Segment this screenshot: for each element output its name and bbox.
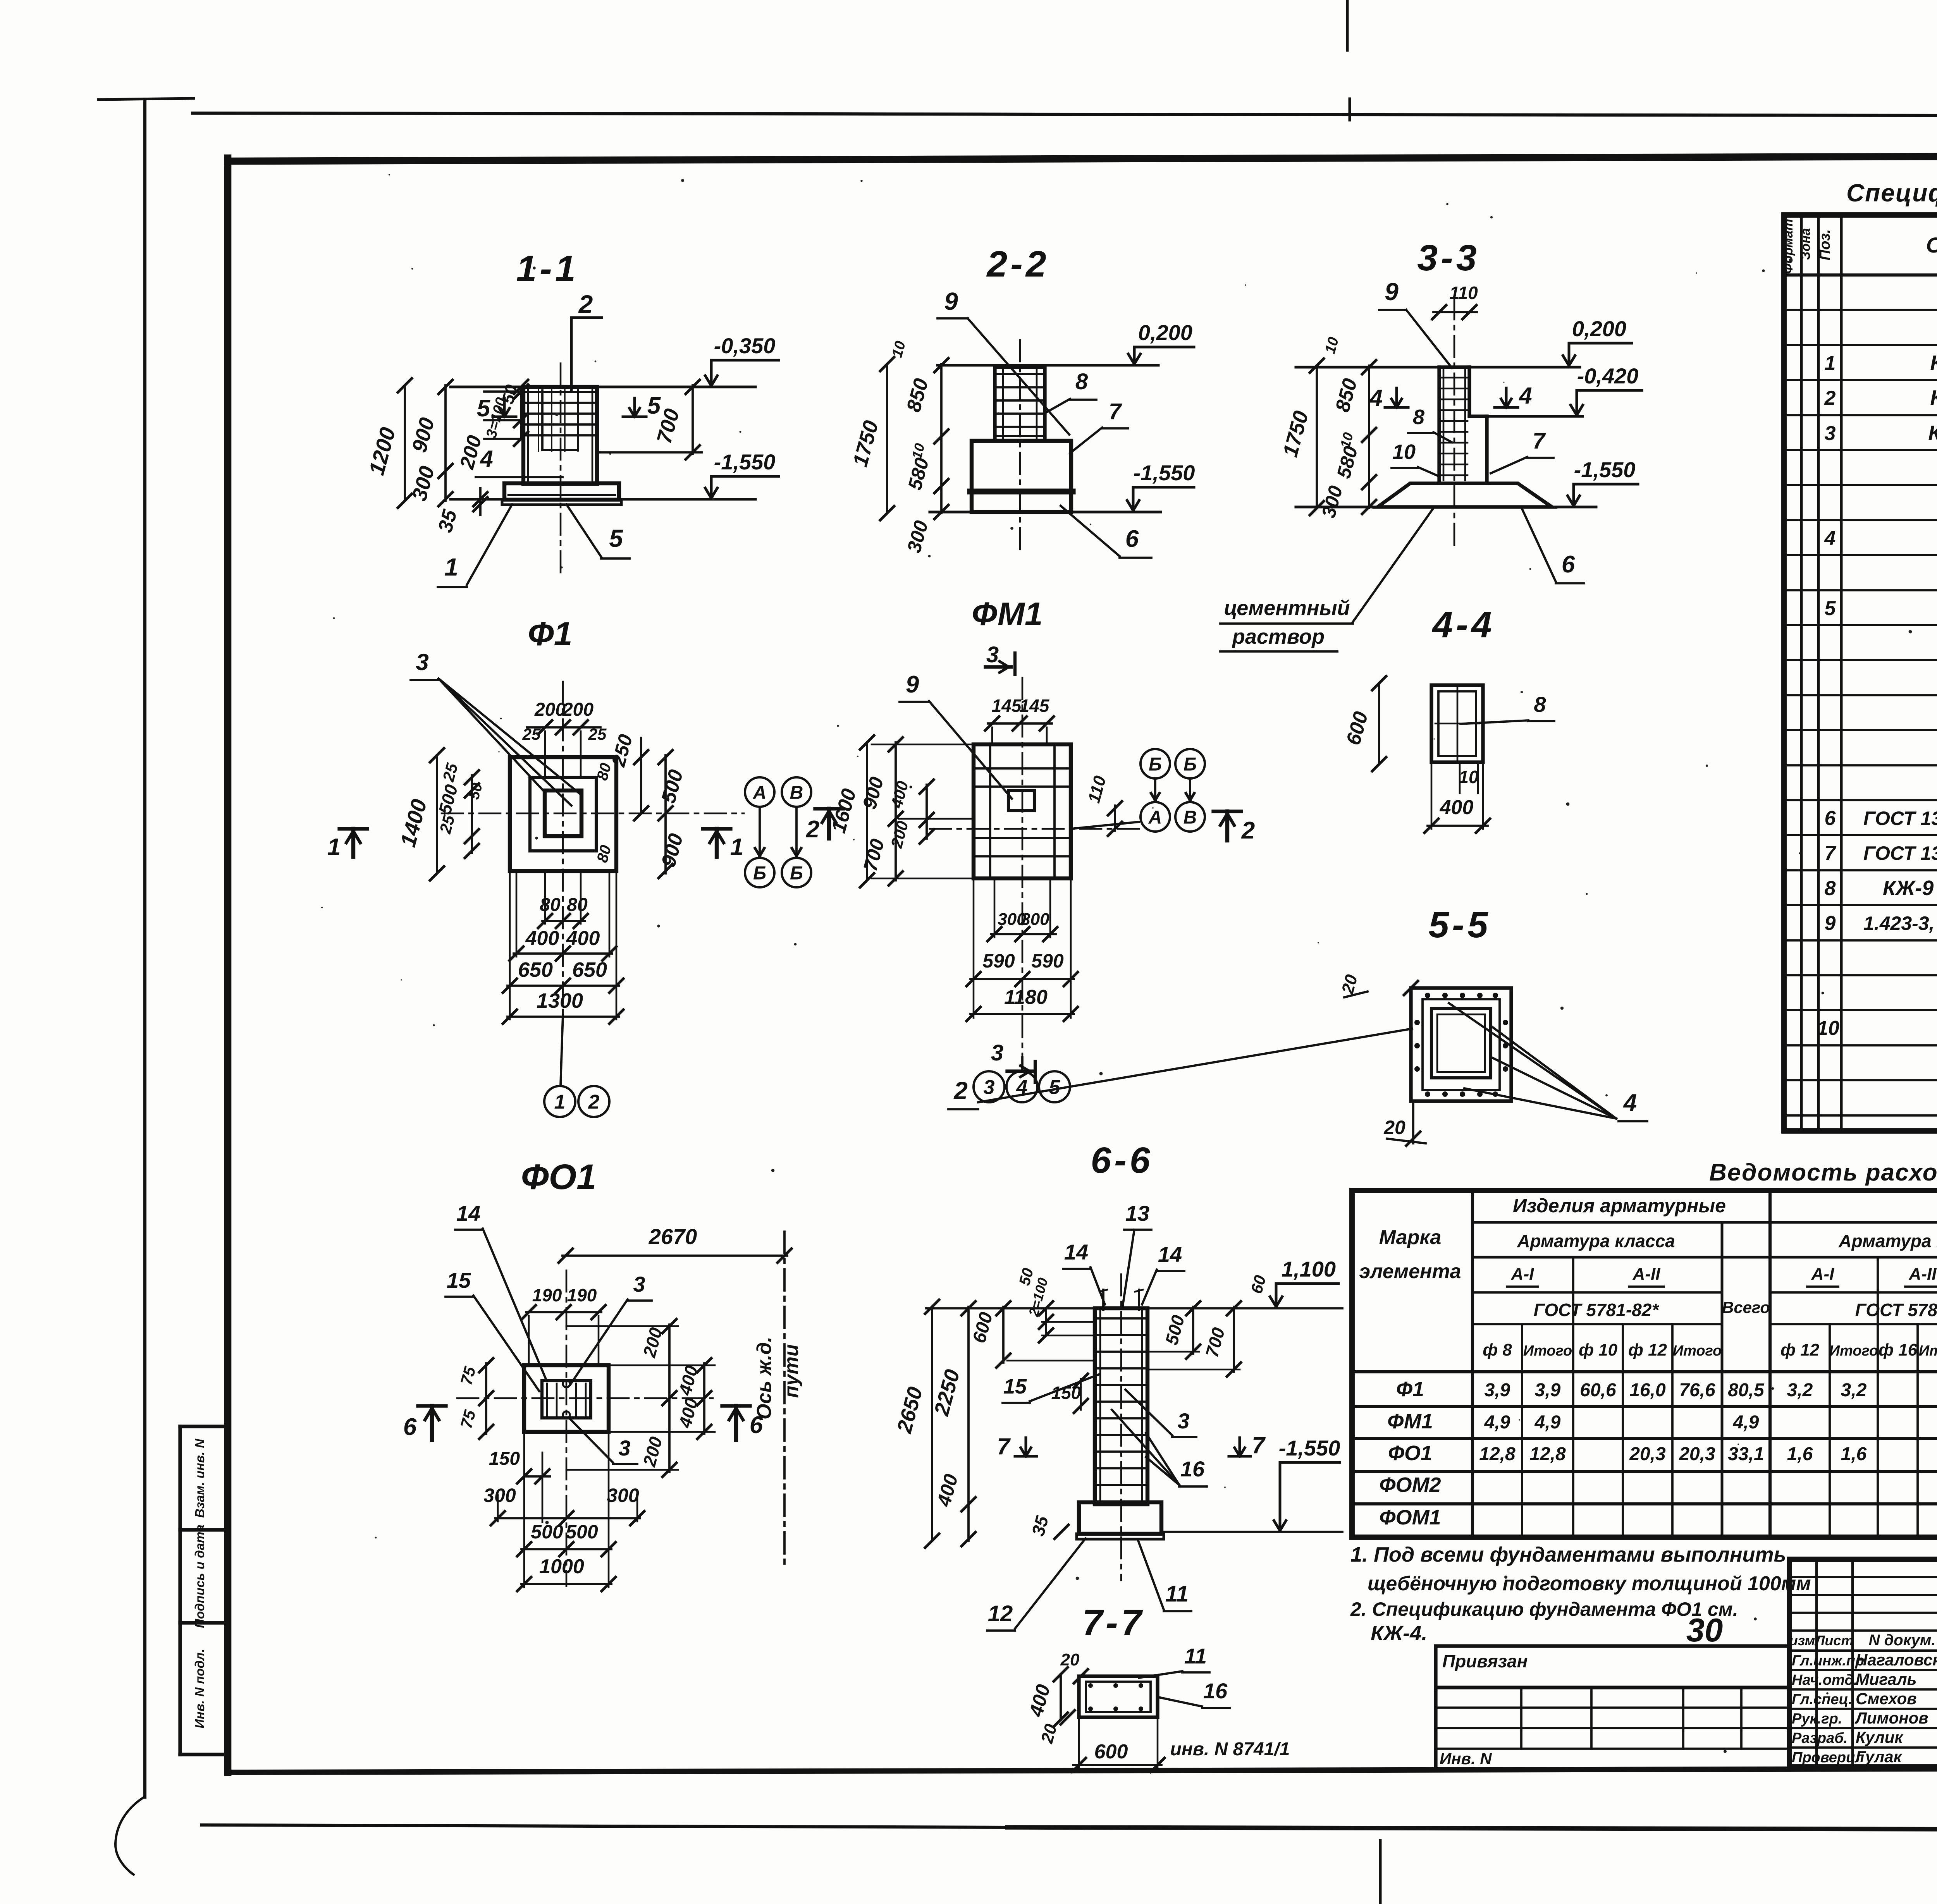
title block signature rows: [1789, 1669, 1937, 1671]
svg-text:Поз.: Поз.: [1817, 229, 1833, 261]
svg-text:Взам. инв. N: Взам. инв. N: [193, 1438, 207, 1518]
steel table vertical lines: [1471, 1191, 1474, 1537]
svg-text:N докум.: N докум.: [1869, 1632, 1936, 1649]
svg-text:3: 3: [1177, 1409, 1189, 1433]
top fold mark: [1346, 0, 1349, 50]
svg-text:Б: Б: [1184, 754, 1197, 775]
svg-text:ф 16: ф 16: [1879, 1340, 1918, 1359]
svg-text:Обозначение: Обозначение: [1926, 233, 1937, 257]
section 3-3 dim 1750: [1316, 366, 1318, 508]
plan F1 grid circle B: [782, 777, 811, 807]
plan FM1 left extension lines: [872, 744, 974, 746]
svg-text:10: 10: [1459, 767, 1479, 787]
svg-text:А-I: А-I: [1811, 1265, 1834, 1284]
section 3-3 step level line: [1471, 415, 1583, 418]
svg-text:ГОСТ 5781-82*: ГОСТ 5781-82*: [1534, 1300, 1660, 1320]
section 6-6 centre axis: [1120, 1274, 1122, 1580]
svg-text:элемента: элемента: [1359, 1260, 1461, 1283]
steel table horizontal lines: [1473, 1221, 1937, 1224]
section 2-2 block-plate joint: [970, 488, 1073, 494]
plan F1 right dim 500 900: [664, 755, 667, 873]
svg-text:1,6: 1,6: [1841, 1444, 1867, 1464]
drawing frame left: [224, 158, 232, 1772]
plan FM1 grid circle B1: [1141, 749, 1170, 778]
svg-text:Итого: Итого: [1523, 1343, 1572, 1359]
section 7-7 rebar dots: [1088, 1683, 1093, 1688]
section 5-5 rebar dots: [1425, 993, 1430, 998]
svg-text:9: 9: [944, 287, 958, 315]
svg-text:0,200: 0,200: [1138, 320, 1192, 345]
svg-text:9: 9: [1825, 912, 1836, 935]
svg-text:3,2: 3,2: [1787, 1380, 1813, 1401]
spec table outer border: [1784, 215, 1937, 1131]
svg-text:0,200: 0,200: [1572, 316, 1626, 341]
svg-text:А: А: [753, 782, 767, 803]
svg-text:2: 2: [588, 1091, 600, 1114]
svg-text:150: 150: [489, 1449, 520, 1469]
svg-text:Б: Б: [753, 863, 766, 883]
section 1-1 centre axis: [560, 363, 562, 577]
svg-text:Зона: Зона: [1798, 228, 1813, 260]
svg-text:8: 8: [1825, 877, 1836, 900]
svg-text:600: 600: [1094, 1741, 1128, 1763]
section 1-1 column outline: [523, 387, 597, 484]
plan F1 grid connectors: [759, 808, 761, 856]
plan F1 column square: [530, 777, 596, 851]
svg-text:Рук.гр.: Рук.гр.: [1792, 1711, 1842, 1727]
section 2-2 FL plate: [972, 491, 1071, 512]
svg-text:ф 12: ф 12: [1780, 1340, 1820, 1359]
svg-text:Инв. N подл.: Инв. N подл.: [193, 1649, 207, 1728]
svg-text:3: 3: [991, 1040, 1003, 1065]
svg-text:3: 3: [633, 1272, 645, 1296]
svg-text:Нач.отд.: Нач.отд.: [1792, 1672, 1858, 1688]
svg-text:15: 15: [447, 1268, 471, 1292]
svg-text:1,100: 1,100: [1282, 1257, 1336, 1281]
svg-text:6-6: 6-6: [1091, 1140, 1153, 1181]
svg-text:КЖ-4.: КЖ-4.: [1371, 1622, 1427, 1645]
section 6-6 bottom level line: [1164, 1531, 1342, 1533]
section 2-2 dim 1750: [886, 364, 888, 513]
plan F1 top extension lines: [544, 731, 546, 777]
plan FO1 embed plate: [542, 1381, 591, 1418]
plan FM1 grid circle B2: [1175, 749, 1205, 778]
section 6-6 column mesh rungs: [1097, 1317, 1145, 1320]
svg-text:2: 2: [953, 1077, 968, 1105]
svg-text:6: 6: [1125, 526, 1139, 552]
svg-text:20: 20: [1060, 1650, 1080, 1669]
svg-text:590: 590: [982, 950, 1015, 972]
svg-text:5-5: 5-5: [1428, 904, 1491, 945]
svg-text:14: 14: [1064, 1240, 1088, 1264]
svg-text:Проверил: Проверил: [1792, 1749, 1864, 1766]
plan FM1 axis link to circles: [1071, 822, 1139, 829]
title block revision grid rows: [1789, 1576, 1937, 1578]
svg-text:500: 500: [566, 1521, 598, 1543]
svg-text:300: 300: [607, 1485, 639, 1506]
plan FM1 position circle 4: [1006, 1071, 1037, 1102]
svg-text:3,9: 3,9: [1535, 1380, 1561, 1401]
svg-text:6: 6: [750, 1412, 763, 1438]
plan F1 right dim 250: [640, 738, 642, 813]
section 1-1 column mesh rungs: [526, 391, 595, 393]
attr table privyazan box: [1436, 1646, 1789, 1687]
svg-text:190: 190: [567, 1285, 597, 1305]
svg-text:10: 10: [1392, 440, 1416, 464]
plan FO1 embed bars: [546, 1383, 548, 1416]
section 3-3 column outline: [1437, 367, 1441, 483]
section 7-7 outline: [1079, 1676, 1158, 1717]
svg-text:ф 8: ф 8: [1483, 1340, 1512, 1359]
svg-text:В: В: [1184, 807, 1197, 828]
svg-text:-0,350: -0,350: [714, 333, 776, 358]
plan FO1 bottom extension lines: [523, 1432, 525, 1587]
svg-text:ФО1: ФО1: [521, 1157, 597, 1197]
svg-text:Привязан: Привязан: [1442, 1651, 1528, 1671]
svg-text:-1,550: -1,550: [1574, 457, 1636, 482]
svg-text:20,3: 20,3: [1629, 1444, 1666, 1464]
plan F1 left dim 1400: [436, 755, 438, 873]
svg-text:200: 200: [562, 699, 593, 720]
plan FM1 left dim 400-200: [925, 785, 928, 839]
svg-text:Ось ж.д.: Ось ж.д.: [753, 1337, 776, 1419]
plan F1 axis circles leader: [561, 1015, 563, 1085]
svg-text:1: 1: [444, 553, 458, 581]
plan F1 bottom extension lines: [509, 871, 511, 1019]
section 2-2 top level line: [938, 364, 1158, 367]
title block revision grid verticals: [1815, 1559, 1818, 1767]
section 1-1 dim line 1200: [404, 385, 406, 501]
svg-text:190: 190: [532, 1285, 562, 1305]
svg-text:В: В: [790, 782, 803, 803]
plan FO1 right dim 200 400 400 200: [668, 1325, 671, 1472]
svg-text:14: 14: [456, 1201, 480, 1225]
svg-text:590: 590: [1031, 950, 1064, 972]
svg-text:2: 2: [1824, 387, 1836, 409]
top-left registration tick: [98, 98, 194, 100]
plan F1 grid circle B1: [745, 858, 774, 887]
svg-text:7: 7: [1533, 428, 1546, 454]
sheet outer border left: [143, 99, 146, 1797]
svg-text:1: 1: [554, 1091, 566, 1114]
plan FM1 grid circle V: [1175, 802, 1205, 832]
svg-text:Подпись и дата: Подпись и дата: [193, 1524, 207, 1628]
section 2-2 centre axis: [1019, 340, 1021, 550]
svg-text:4: 4: [1623, 1089, 1637, 1116]
spec table row lines: [1784, 309, 1937, 311]
scan speckles: [998, 412, 1000, 415]
section 5-5 inner mesh square: [1431, 1009, 1491, 1078]
section 6-6 column outline: [1095, 1308, 1147, 1504]
spec table verticals: [1800, 215, 1803, 1131]
svg-text:раствор: раствор: [1232, 625, 1325, 648]
svg-text:пути: пути: [780, 1344, 803, 1398]
svg-text:ГОСТ 13579-78*: ГОСТ 13579-78*: [1863, 842, 1937, 864]
svg-text:8: 8: [1075, 369, 1088, 394]
svg-text:76,6: 76,6: [1679, 1380, 1715, 1401]
svg-text:3,9: 3,9: [1485, 1380, 1510, 1401]
svg-text:2: 2: [806, 816, 819, 843]
section 2-2 dim chain 850-580-300: [940, 364, 943, 513]
svg-text:2670: 2670: [649, 1224, 697, 1249]
svg-text:400: 400: [1440, 796, 1474, 819]
section 3-3 bottom level lines: [1296, 506, 1378, 509]
svg-text:650: 650: [572, 958, 607, 981]
section 6-6 column inner bars: [1099, 1310, 1101, 1503]
svg-text:145: 145: [1020, 696, 1050, 716]
section 4-4 dim 600: [1378, 683, 1380, 764]
plan FM1 embed plate: [1008, 790, 1034, 811]
plan F1 position circle 1: [544, 1086, 575, 1117]
svg-text:3: 3: [416, 649, 428, 675]
svg-text:ф 10: ф 10: [1579, 1340, 1618, 1359]
svg-text:1: 1: [730, 834, 743, 861]
plan FO1 left dim 75 75: [485, 1363, 487, 1434]
svg-text:3: 3: [986, 642, 999, 667]
section 5-5 middle outline: [1423, 999, 1500, 1090]
svg-text:Нагаловский: Нагаловский: [1856, 1651, 1937, 1669]
svg-text:14: 14: [1158, 1242, 1182, 1266]
svg-text:1.423-3, вып. 2: 1.423-3, вып. 2: [1863, 912, 1937, 934]
svg-text:8: 8: [1413, 406, 1424, 429]
svg-text:1-1: 1-1: [516, 248, 578, 289]
plan FM1 position circle 5: [1039, 1071, 1070, 1102]
svg-text:6: 6: [1562, 551, 1575, 578]
section 4-4 outline: [1431, 685, 1483, 762]
svg-text:А-II: А-II: [1909, 1265, 1937, 1284]
svg-text:1300: 1300: [537, 989, 583, 1012]
svg-text:Итого: Итого: [1919, 1343, 1937, 1359]
svg-text:инв. N 8741/1: инв. N 8741/1: [1170, 1739, 1290, 1760]
svg-text:Гулак: Гулак: [1856, 1748, 1903, 1766]
svg-text:щебёночную подготовку толщино: щебёночную подготовку толщиной 100мм: [1368, 1572, 1811, 1595]
svg-text:ФОМ2: ФОМ2: [1379, 1473, 1441, 1497]
section 6-6 top rebar hooks: [1102, 1290, 1104, 1310]
section 1-1 stirrup U: [541, 390, 544, 450]
svg-text:КЖ-10: КЖ-10: [1928, 421, 1937, 445]
svg-text:10: 10: [1817, 1017, 1839, 1040]
svg-text:33,1: 33,1: [1728, 1444, 1764, 1464]
svg-text:20: 20: [1383, 1117, 1405, 1138]
svg-text:7: 7: [1109, 399, 1122, 424]
steel table outer border: [1352, 1191, 1937, 1537]
svg-text:КЖ-9: КЖ-9: [1883, 876, 1934, 900]
svg-text:30: 30: [1686, 1612, 1723, 1649]
svg-text:7: 7: [1825, 842, 1837, 864]
section 3-3 column mesh: [1443, 368, 1445, 480]
section 1-1 dim line 900-300: [444, 385, 447, 501]
section 3-3 dim chain 850-580-300: [1368, 366, 1370, 508]
svg-text:3: 3: [984, 1076, 995, 1099]
plan FO1 outline: [524, 1365, 609, 1432]
section 2-2 bottom level line: [930, 511, 972, 514]
svg-text:1: 1: [327, 834, 341, 861]
svg-text:5: 5: [1825, 597, 1836, 620]
section 6-6 right dim 700: [1233, 1307, 1235, 1372]
plan FM1 slab band lines: [974, 767, 1071, 770]
svg-text:Всего: Всего: [1722, 1298, 1770, 1316]
plan FM1 grid connectors: [1154, 779, 1156, 800]
svg-text:А-II: А-II: [1633, 1265, 1661, 1284]
svg-text:1,6: 1,6: [1787, 1444, 1813, 1464]
svg-text:4: 4: [1824, 527, 1836, 550]
sheet outer border bottom: [201, 1825, 1007, 1827]
svg-text:3: 3: [1825, 422, 1836, 445]
spec table header row line: [1784, 273, 1937, 277]
svg-text:4: 4: [1369, 385, 1382, 411]
bottom fold mark: [1379, 1840, 1382, 1904]
section 6-6 dim 2250-400: [967, 1307, 970, 1541]
title block outer border: [1789, 1559, 1937, 1767]
svg-text:Ф1: Ф1: [1396, 1378, 1424, 1401]
svg-text:300: 300: [483, 1485, 516, 1506]
section 7-7 inner mesh: [1086, 1682, 1151, 1712]
svg-text:Изделия арматурные: Изделия арматурные: [1513, 1195, 1726, 1217]
plan F1 grid circle A: [745, 777, 774, 807]
svg-text:КЖ-9: КЖ-9: [1930, 386, 1937, 409]
section 3-3 centre axis: [1454, 298, 1455, 550]
svg-text:Гл.инж.пр: Гл.инж.пр: [1792, 1653, 1864, 1669]
svg-text:Мигаль: Мигаль: [1856, 1670, 1916, 1688]
drawing frame bottom: [228, 1768, 1937, 1772]
svg-text:7: 7: [997, 1433, 1011, 1459]
svg-text:ФО1: ФО1: [1388, 1442, 1432, 1465]
svg-text:-0,420: -0,420: [1577, 364, 1639, 388]
plan FM1 slab outline: [974, 744, 1071, 878]
svg-text:Инв. N: Инв. N: [1440, 1749, 1492, 1768]
plan FO1 anchor circles: [563, 1380, 570, 1387]
svg-text:7-7: 7-7: [1082, 1602, 1144, 1643]
svg-text:Спецификация фундаментов Ф: Спецификация фундаментов Ф1, Ф2: [1846, 179, 1937, 207]
svg-text:145: 145: [992, 696, 1022, 716]
left sidebar cells: [178, 1426, 182, 1754]
plan F1 left small dims 25 500 25: [471, 775, 473, 853]
svg-text:12,8: 12,8: [1479, 1444, 1516, 1464]
svg-text:А-I: А-I: [1511, 1265, 1534, 1284]
svg-text:4,9: 4,9: [1534, 1412, 1561, 1433]
plan FO1 railway axis: [783, 1232, 786, 1565]
svg-text:25: 25: [522, 725, 541, 743]
sheet outer border top: [193, 113, 1937, 116]
title block header izm row: [1789, 1650, 1937, 1652]
drawing frame top: [228, 155, 1937, 161]
svg-text:4,9: 4,9: [1484, 1412, 1510, 1433]
svg-text:Арматура класса: Арматура класса: [1838, 1231, 1937, 1251]
section 6-6 base plate: [1077, 1534, 1164, 1539]
svg-text:80: 80: [567, 895, 588, 915]
section 7-7 dim 400: [1060, 1674, 1062, 1720]
svg-text:Итого: Итого: [1673, 1343, 1722, 1359]
svg-text:5: 5: [1049, 1076, 1061, 1099]
svg-text:80,5: 80,5: [1728, 1380, 1765, 1401]
section 3-3 top level line: [1296, 366, 1580, 369]
svg-text:ф 12: ф 12: [1628, 1340, 1667, 1359]
section 1-1 footing: [504, 483, 619, 500]
plan FM1 bottom extension lines: [973, 878, 975, 1018]
section 2-2 column mesh rungs: [997, 373, 1042, 375]
svg-text:цементный: цементный: [1224, 596, 1350, 620]
svg-text:16,0: 16,0: [1629, 1380, 1666, 1401]
svg-text:2-2: 2-2: [986, 244, 1049, 285]
svg-text:9: 9: [906, 671, 919, 698]
plan FM1 left dim 1600: [866, 742, 868, 880]
svg-text:16: 16: [1203, 1679, 1228, 1703]
section 1-1 footing mesh: [508, 494, 615, 496]
svg-text:ГОСТ 13580-80: ГОСТ 13580-80: [1863, 808, 1937, 829]
svg-text:15: 15: [1003, 1375, 1027, 1398]
section 6-6 dim 600: [1002, 1307, 1005, 1363]
plan F1 axes: [442, 813, 744, 815]
section 6-6 dim 2650: [931, 1307, 933, 1541]
svg-text:3-3: 3-3: [1417, 237, 1479, 278]
plan F1 outer square: [510, 757, 616, 871]
section 1-1 dim chain near column: [520, 387, 522, 439]
section 2-2 FBS block: [972, 441, 1071, 491]
svg-text:25: 25: [588, 725, 607, 743]
svg-text:Б: Б: [1149, 754, 1162, 775]
section 1-1 bottom level line: [451, 498, 504, 501]
plan FM1 position circle 3: [974, 1071, 1005, 1102]
plan FM1 axes: [930, 828, 1143, 830]
svg-text:80: 80: [540, 895, 561, 915]
plan FO1 right extension lines: [609, 1364, 715, 1366]
section 2-2 column inner lines: [1002, 367, 1004, 441]
svg-text:Арматура класса: Арматура класса: [1517, 1231, 1675, 1251]
section 5-5 outer outline: [1411, 988, 1511, 1101]
svg-text:9: 9: [1385, 278, 1399, 306]
svg-text:12,8: 12,8: [1529, 1444, 1566, 1464]
plan FM1 grid circle A: [1141, 802, 1170, 832]
svg-text:-1,550: -1,550: [1279, 1436, 1340, 1460]
svg-text:5: 5: [609, 524, 623, 552]
plan F1 inner core: [545, 790, 581, 836]
section 6-6 right dim 500: [1192, 1307, 1194, 1354]
svg-text:2: 2: [1241, 817, 1255, 844]
svg-text:20,3: 20,3: [1679, 1444, 1715, 1464]
svg-text:Гл.спец.: Гл.спец.: [1792, 1691, 1853, 1708]
svg-text:Ведомость расхода стали: Ведомость расхода стали на элемент , кг: [1709, 1159, 1937, 1186]
svg-text:12: 12: [988, 1601, 1013, 1626]
plan FM1 block edge lines: [989, 744, 991, 878]
svg-text:Лист: Лист: [1814, 1632, 1854, 1648]
section 1-1 top level line: [451, 386, 755, 388]
svg-text:Формат: Формат: [1781, 219, 1796, 274]
attr table grid: [1436, 1687, 1789, 1770]
svg-text:7: 7: [1252, 1432, 1266, 1458]
svg-text:11: 11: [1184, 1644, 1207, 1668]
section 6-6 top level line: [926, 1307, 1095, 1309]
svg-text:А: А: [1148, 807, 1162, 828]
section 1-1 column vertical bars: [538, 389, 539, 451]
svg-text:300: 300: [1021, 910, 1049, 929]
svg-text:60,6: 60,6: [1580, 1380, 1616, 1401]
svg-text:ФМ1: ФМ1: [1387, 1410, 1433, 1433]
svg-text:Марка: Марка: [1379, 1226, 1442, 1249]
section 1-1 small offset lines: [484, 390, 523, 393]
svg-text:Б: Б: [790, 863, 803, 883]
svg-text:1: 1: [1825, 352, 1836, 375]
svg-text:Смехов: Смехов: [1856, 1689, 1917, 1708]
svg-text:Кулик: Кулик: [1856, 1728, 1903, 1746]
svg-text:1. Под всеми фундаментами в: 1. Под всеми фундаментами выполнить: [1350, 1543, 1786, 1566]
svg-text:6: 6: [1825, 807, 1836, 830]
svg-text:изм: изм: [1789, 1632, 1815, 1648]
svg-text:16: 16: [1180, 1457, 1205, 1481]
svg-text:-1,550: -1,550: [1134, 461, 1195, 485]
section 1-1 dim 700: [692, 385, 694, 454]
svg-text:200: 200: [534, 699, 566, 720]
svg-text:11: 11: [1165, 1581, 1189, 1607]
